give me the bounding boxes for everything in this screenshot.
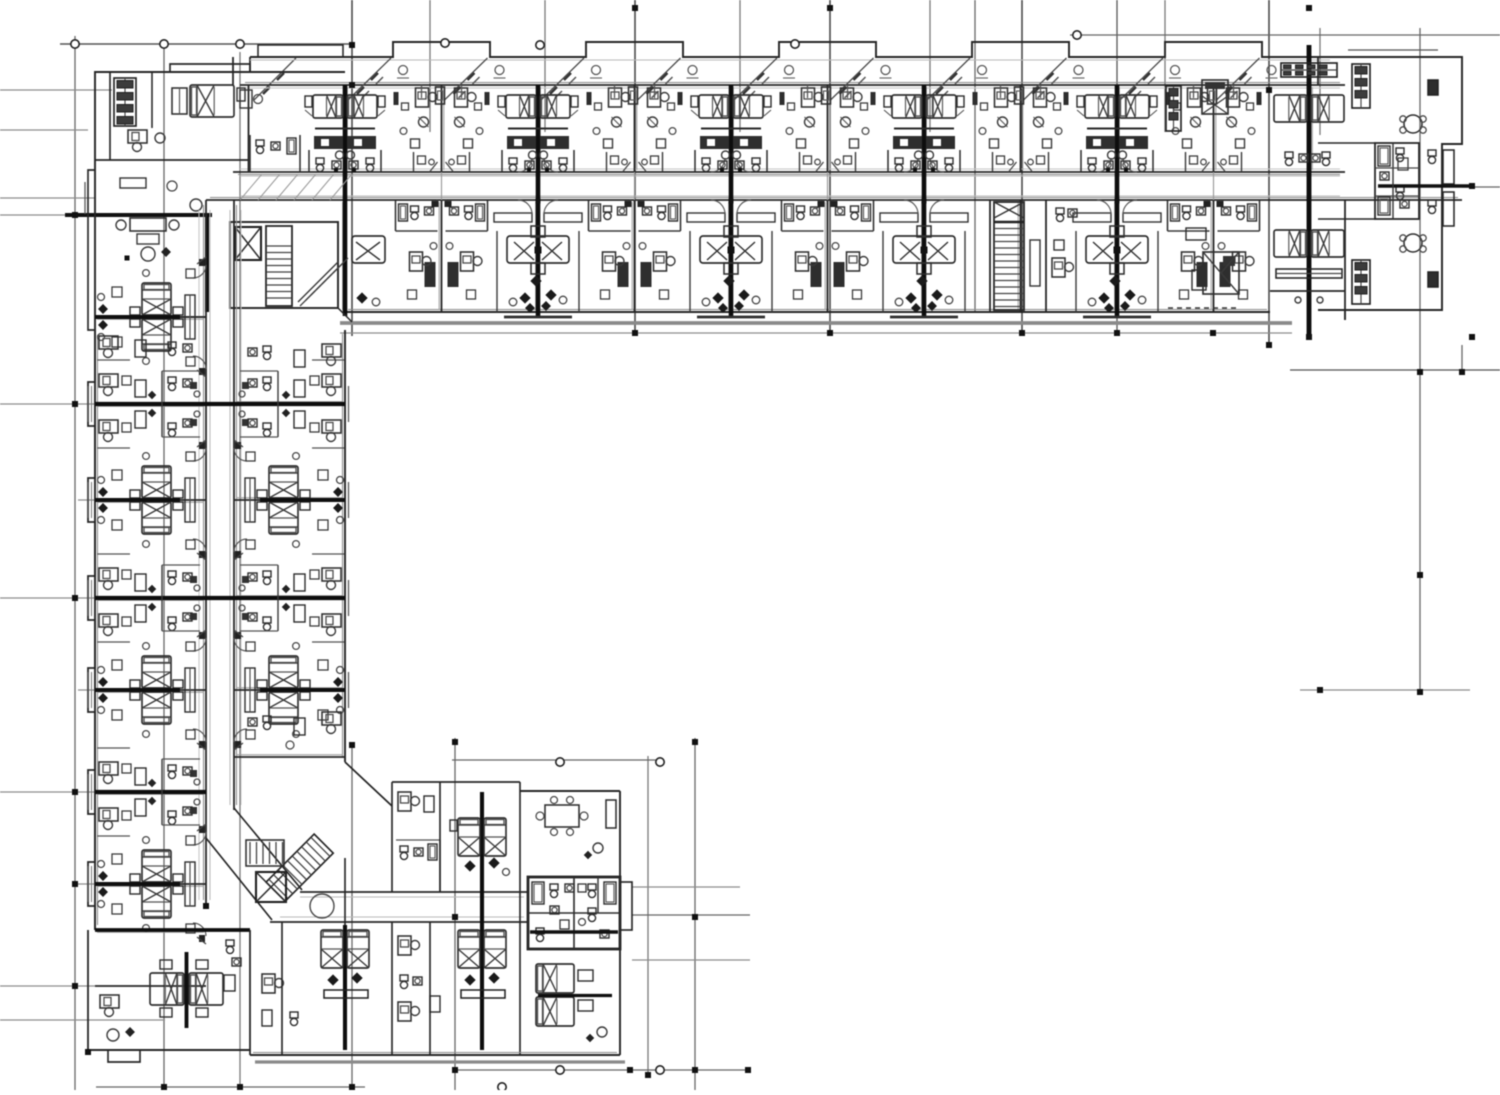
right column tv cabinet y=500 <box>245 478 255 522</box>
right end bottom wall local y=291 <box>1270 290 1345 292</box>
top row bed pair at x=924 <box>892 95 922 118</box>
bottom row desks at x=828 <box>796 252 809 271</box>
bottom row wide bed at x=538 <box>507 236 569 263</box>
top row wardrobe band at x=924 <box>893 136 922 149</box>
bottom row bath cluster at x=1214 <box>1183 206 1191 212</box>
left wing corridor guide greys <box>209 210 211 900</box>
top row wall blobs at x=634 <box>587 92 592 105</box>
left column bath cluster y=404 <box>168 377 176 383</box>
bottom row partition wall x=538 <box>537 200 539 312</box>
grid horizontal annex line y=887 <box>632 886 740 888</box>
top wing bottom row base line y=333 with dots <box>340 332 1292 334</box>
corridor turn diagonal A <box>234 808 302 890</box>
top row door ticks at x=634 <box>623 162 631 172</box>
top row desk cluster at x=828 <box>802 88 815 107</box>
annex stair side steps <box>246 840 284 866</box>
bottom row partition wall x=1214 <box>1213 200 1215 312</box>
bottom-left room bottom wall <box>88 1049 250 1051</box>
left wing outer west wall with bays <box>88 330 95 930</box>
right column desk cluster y=598 <box>322 568 341 581</box>
grid vertical short line x=545 <box>544 0 546 132</box>
grid horizontal line right y=370 <box>1290 369 1500 371</box>
bottom-left big room bed pair <box>150 973 184 1005</box>
bottom-left heavy bar x=186 <box>185 952 189 1028</box>
right column partial desk cluster y=730 <box>322 712 341 725</box>
annex suite bath box <box>528 877 620 949</box>
corner stair <box>266 226 292 306</box>
annex top desk x=415 <box>398 792 411 811</box>
special room bottom tables <box>1186 228 1206 240</box>
annex bottom bed pair at x=345 <box>321 930 343 968</box>
grid vertical line B x=164 <box>163 40 165 1090</box>
left column door ticks y=317 <box>197 257 206 264</box>
entrance hall desk cluster <box>130 218 166 231</box>
left column partition y=500 <box>95 499 206 501</box>
annex partitions bottom rooms <box>391 922 393 1055</box>
top row dresser line at x=731 <box>701 127 761 129</box>
annex bed wall x=482 heavy <box>480 792 484 1050</box>
annex corridor top wall y=892 <box>300 891 528 893</box>
corridor turn diagonal B <box>206 838 272 920</box>
grid horizontal annex line y=760 <box>452 759 658 761</box>
top wing west end jog <box>249 57 251 72</box>
grid horizontal annex line y=1070 <box>452 1069 750 1071</box>
grid horizontal line y=792 left margin <box>0 791 95 793</box>
left column partition y=317 <box>95 316 206 318</box>
right column partition y=500 <box>234 499 345 501</box>
top wing balcony floor grey y=88 <box>245 87 1340 89</box>
bottom row diamond chairs at x=538 <box>519 292 530 303</box>
top row door ticks at x=442 <box>430 162 438 172</box>
annex bottom grey slab line <box>255 1060 625 1063</box>
grid horizontal line y=986 left margin <box>0 985 95 987</box>
top wing bottom outer wall y=312 double <box>345 311 1270 313</box>
left column desk cluster y=598 <box>99 568 118 581</box>
bottom row desks at x=1214 <box>1182 252 1195 271</box>
left column tv cabinet y=500 <box>185 478 195 522</box>
grid vertical short line x=1165 <box>1164 0 1166 132</box>
bottom row wardrobe blobs at x=828 <box>811 262 822 287</box>
bottom row partition wall x=345 <box>344 200 346 312</box>
right block mid partitions <box>1318 142 1375 144</box>
top row wardrobe band at x=1117 <box>1086 136 1115 149</box>
corner stair diagonal flight <box>298 262 338 302</box>
grid horizontal stub y=690 <box>78 689 95 691</box>
left wing east outer wall x=345 double <box>344 330 346 762</box>
top row bath stubs at x=1214 <box>1185 152 1187 172</box>
left wing corridor door blobs <box>199 259 205 266</box>
left wing door arcs <box>193 265 206 278</box>
left wing bottom partition y=930 heavy <box>95 928 250 932</box>
grid horizontal axis line y=44 over corner <box>60 43 352 45</box>
left column partition y=598 <box>95 597 206 599</box>
right column bedside squares y=500 <box>318 470 328 480</box>
top row clutter at x=828 <box>788 103 795 110</box>
door swing arcs top wing top row <box>518 158 532 172</box>
bottom row bath cluster at x=828 <box>797 206 805 212</box>
top row desk cluster at x=1020 <box>995 88 1008 107</box>
top row circles at x=345 <box>336 151 344 159</box>
top row wardrobe band at x=345 <box>314 136 343 149</box>
bottom-left nightstands <box>160 960 172 969</box>
top row wall blobs at x=1020 <box>973 92 978 105</box>
left column door ticks y=690 <box>197 630 206 637</box>
corner suite top bay bump <box>170 64 250 72</box>
left wing bath door squares <box>190 382 197 389</box>
annex bottom bed wall x=345 heavy <box>343 925 347 1050</box>
bottom row bed center column at x=1117 <box>1110 226 1124 237</box>
top row clutter at x=1020 <box>981 103 988 110</box>
door swing arcs top wing bottom row <box>518 200 532 214</box>
right end dresser bottom <box>1276 269 1342 278</box>
top row partition wall x=1117 <box>1116 85 1118 172</box>
grid horizontal line y=598 left margin <box>0 597 95 599</box>
top row bath stubs at x=828 <box>799 152 801 172</box>
annex suite bed pair lower <box>536 964 574 993</box>
grid vertical line C x=240 <box>239 52 241 1090</box>
left wing heavy bar y=986 stub <box>95 985 206 987</box>
grid horizontal line y=198 left <box>0 197 95 199</box>
right column window diamonds y=690 <box>333 677 343 687</box>
bottom row wide bed at x=1117 <box>1086 236 1148 263</box>
left column window diamonds y=500 <box>98 487 108 497</box>
left column tv cabinet y=317 <box>185 295 195 339</box>
right block corridor stub walls <box>1344 200 1346 310</box>
bath next to stair <box>1056 208 1064 214</box>
grid horizontal heavy line y=215 entrance axis <box>0 214 65 216</box>
top row wall blobs at x=442 <box>394 92 399 105</box>
bottom row wide bed at x=731 <box>700 236 762 263</box>
left column bed-wall heavy bar y=884 <box>95 882 180 886</box>
top row bed pair at x=731 <box>699 95 729 118</box>
grid vertical line x=1320 <box>1319 28 1321 135</box>
right column door ticks y=500 <box>234 440 243 447</box>
annex suite bath fixtures <box>532 882 544 904</box>
grid horizontal line right y=690 <box>1300 689 1470 691</box>
stairwell side walls <box>989 200 991 312</box>
grid vertical line x=1269 <box>1268 0 1270 345</box>
annex suite chair lower <box>597 1027 607 1037</box>
top row wardrobe band at x=731 <box>700 136 729 149</box>
right column tv cabinet y=690 <box>245 668 255 712</box>
bottom row partition wall x=1310 <box>1309 200 1311 312</box>
bottom row partition wall x=731 <box>730 200 732 312</box>
top row desk cluster at x=442 <box>416 88 429 107</box>
top row wall blobs at x=828 <box>780 92 785 105</box>
stair landing bars <box>994 221 1024 224</box>
left column door ticks y=500 <box>197 440 206 447</box>
left column top room below corner <box>99 336 118 349</box>
left wing west wall inner grey <box>97 335 99 925</box>
stairwell top wing x=994 <box>994 202 1024 310</box>
annex suite sofa right top <box>606 800 616 828</box>
corner suite desk <box>128 130 147 143</box>
grid vertical annex line x=455 <box>454 738 456 1092</box>
grid horizontal annex line y=915 <box>632 914 750 916</box>
right column bed-wall heavy bar y=690 <box>260 688 345 692</box>
top row clutter at x=1214 <box>1174 103 1181 110</box>
bottom row partition wall x=1117 <box>1116 200 1118 312</box>
entrance pot plant circle <box>190 199 202 211</box>
top row bath fixtures at x=924 <box>895 158 903 164</box>
right end top bath bits <box>1285 152 1293 158</box>
annex suite left wall x=520 <box>519 782 521 1055</box>
bottom row door ticks at x=828 <box>817 200 824 209</box>
grid horizontal annex line y=960 <box>632 959 750 961</box>
right block outer walls <box>1318 57 1462 320</box>
top row partition wall x=1214 <box>1213 85 1215 172</box>
left wing corridor east wall x=234 double <box>233 200 235 810</box>
corridor junction dots <box>536 199 541 204</box>
left column tv cabinet y=884 <box>185 862 195 906</box>
right block bottom cabinets <box>1352 260 1370 304</box>
top row circles at x=924 <box>915 151 923 159</box>
left column partition y=404 <box>95 403 206 405</box>
annex suite dining table <box>545 805 579 827</box>
bottom row bed center column at x=924 <box>917 226 931 237</box>
grid vertical short line x=930 <box>929 0 931 132</box>
left column bedside squares y=500 <box>112 470 122 480</box>
left column bed pair at y=884 <box>142 850 171 882</box>
corner suite outer walls <box>95 72 345 170</box>
grid vertical line x=975 stair axis <box>974 0 976 312</box>
bottom row diamond chairs at x=731 <box>712 292 723 303</box>
right block toilets right <box>1428 150 1436 156</box>
top row circles at x=1117 <box>1108 151 1116 159</box>
corridor threshold ticks <box>441 172 443 200</box>
right block closet bumps right edge <box>1443 150 1454 184</box>
left column bed-wall heavy bar y=317 <box>95 315 180 319</box>
left column window diamonds y=884 <box>98 871 108 881</box>
annex suite right wall x=620 <box>619 791 621 1055</box>
top row clutter at x=442 <box>402 103 409 110</box>
right column bed-wall heavy bar y=500 <box>260 498 345 502</box>
grid vertical long line x=1022 <box>1021 0 1023 336</box>
left column tv cabinet y=690 <box>185 668 195 712</box>
right column top room y=330-404 contents <box>322 344 341 357</box>
top row partition wall x=1020 <box>1020 85 1022 172</box>
annex top bath cluster x=415 <box>400 846 408 852</box>
bottom row bath cluster at x=634 <box>604 206 612 212</box>
top row dresser line at x=1117 <box>1087 127 1147 129</box>
bottom-left bay bump <box>108 1050 140 1062</box>
bottom row shelves at x=1117 <box>1073 213 1111 222</box>
grid vertical line x=1420 right side <box>1419 28 1421 694</box>
right column door ticks y=690 <box>234 630 243 637</box>
grid vertical line D x=352 top <box>351 0 353 336</box>
annex suite bath extra fixtures <box>578 884 586 892</box>
heavy structural bar x=1309 <box>1307 45 1312 337</box>
top row partition wall x=538 <box>537 85 539 172</box>
annex suite chair marks top <box>593 843 603 853</box>
bottom row partition wall x=924 <box>923 200 925 312</box>
annex corridor guide greys <box>300 896 524 898</box>
top row door ticks at x=1020 <box>1009 162 1017 172</box>
annex suite bath heavy bar <box>530 930 618 934</box>
left column window diamonds y=317 <box>98 304 108 314</box>
left column bath cluster y=792 <box>168 765 176 771</box>
bottom row shelves at x=731 <box>687 213 725 222</box>
bottom-left clutter near corridor <box>226 940 234 946</box>
corner suite dresser <box>114 78 136 126</box>
top row bath fixtures at x=1117 <box>1088 158 1096 164</box>
right column partition y=690 <box>234 689 345 691</box>
annex stair diagonal <box>266 834 333 901</box>
grid vertical line D x=352 bottom <box>351 742 353 1090</box>
right end wardrobe top <box>1281 63 1337 77</box>
top wing corridor top wall y=172 double <box>233 171 1345 173</box>
elevator core box corner <box>230 222 338 308</box>
left column bed pair at y=690 <box>142 656 171 688</box>
bottom row shelves at x=924 <box>880 213 918 222</box>
annex bottom bed pair at x=482 <box>458 930 480 968</box>
left column desk cluster y=792 <box>99 762 118 775</box>
right column bath cluster y=404 <box>263 377 271 383</box>
annex top rooms outer wall y=782 <box>392 781 520 783</box>
top row bath stubs at x=1020 <box>992 152 994 172</box>
top row circles at x=538 <box>529 151 537 159</box>
left column bed-wall heavy bar y=500 <box>95 498 180 502</box>
bottom row door ticks at x=634 <box>624 200 631 209</box>
left wing heavy bars at desk walls <box>95 402 345 406</box>
right column desk cluster y=404 <box>322 374 341 387</box>
top row partition wall x=634 <box>634 85 636 172</box>
special room bottom row K-bed <box>1203 252 1239 294</box>
top wing corridor bottom wall y=200 double <box>206 199 1462 201</box>
annex bottom desk clusters <box>398 936 411 955</box>
top row circles at x=731 <box>722 151 730 159</box>
annex elevator <box>256 872 286 902</box>
top row extra partition x=248 <box>248 85 250 172</box>
left column bedside squares y=690 <box>112 660 122 670</box>
annex top bed pair at x=482 <box>458 818 480 856</box>
top row wardrobe band at x=538 <box>507 136 536 149</box>
bottom row diamond chairs at x=924 <box>905 292 916 303</box>
entrance hall west wall <box>88 170 95 330</box>
right block sofa top <box>1428 80 1438 95</box>
special room 1165-1262 top row: cabinet column <box>1166 86 1181 131</box>
bottom row door ticks at x=442 <box>431 200 438 209</box>
special room bottom dashed window wall <box>1168 307 1240 309</box>
left column window diamonds y=690 <box>98 677 108 687</box>
connector wall x=250 <box>249 930 251 1055</box>
bottom row shelves at x=538 <box>494 213 532 222</box>
bottom row wardrobe blobs at x=1214 <box>1197 262 1208 287</box>
left wing interior grey verticals <box>198 210 200 900</box>
corner hall clutter <box>120 178 146 188</box>
right block round table upper <box>1404 115 1422 133</box>
left column bed pair at y=500 <box>142 466 171 498</box>
bottom row window sill marks below wall <box>504 316 572 319</box>
special room vertical bed top row <box>1202 80 1228 114</box>
top row partition wall x=828 <box>827 85 829 172</box>
corner suite bath cluster <box>256 140 264 146</box>
right block top cabinets <box>1352 64 1370 108</box>
right end bed pair bottom row <box>1274 230 1307 257</box>
right block core fixtures <box>1378 146 1390 166</box>
donut circle markers <box>71 40 79 48</box>
corner core diagonal wall <box>338 308 352 322</box>
top row partition wall x=731 <box>730 85 732 172</box>
top row bed pair at x=538 <box>506 95 536 118</box>
bottom row single bed right of core x=352 <box>352 236 385 263</box>
annex suite top wall y=791 <box>520 790 620 792</box>
entrance hall south partition y=310 <box>95 316 206 318</box>
bottom row desks at x=442 <box>410 252 423 271</box>
bottom row wide bed at x=924 <box>893 236 955 263</box>
grid horizontal line y=1020 left <box>0 1019 165 1021</box>
corner suite bed <box>190 85 234 117</box>
annex west wall x=345 upper segment <box>344 858 346 925</box>
top row clutter at x=634 <box>595 103 602 110</box>
top row wall blobs at x=1214 <box>1166 92 1171 105</box>
bottom row alcove stub walls <box>496 231 498 312</box>
bottom row bed center column at x=731 <box>724 226 738 237</box>
bottom-left room desk <box>100 995 119 1008</box>
annex bottom dressers <box>324 990 368 998</box>
grid vertical short line x=740 <box>739 0 741 132</box>
top row dresser line at x=924 <box>894 127 954 129</box>
bottom row partition wall x=1020 <box>1020 200 1022 312</box>
top row bed pair at x=345 <box>313 95 343 118</box>
grid horizontal line right y=187 <box>1462 186 1500 188</box>
right column partition y=757 <box>234 756 345 758</box>
grid horizontal line y=90 left margin <box>0 89 112 91</box>
top row bath fixtures at x=345 <box>316 158 324 164</box>
elevator corner <box>235 227 261 260</box>
annex corridor bottom wall y=922 <box>270 921 528 923</box>
left wing east window marks <box>348 386 350 422</box>
right block bottom wall <box>1318 309 1442 311</box>
corner suite inner partition y=160 <box>95 159 248 161</box>
left column partition y=792 <box>95 791 206 793</box>
bottom row wardrobe blobs at x=442 <box>425 262 436 287</box>
grid horizontal stub y=884 <box>78 883 95 885</box>
left column bed-wall heavy bar y=690 <box>95 688 180 692</box>
left column partition y=930 <box>95 929 206 931</box>
right column bed pair at y=690 <box>269 656 298 688</box>
top wing outer balcony wall with bays <box>250 42 1462 57</box>
top row door ticks at x=1214 <box>1202 162 1210 172</box>
left column partition y=884 <box>95 883 206 885</box>
entrance corridor heavy bar x=207 <box>205 215 209 312</box>
left column bed pair at y=317 <box>142 283 171 315</box>
grid horizontal line top right y=35 <box>1070 34 1500 36</box>
bottom row partition wall x=634 <box>634 200 636 312</box>
top row dresser line at x=345 <box>315 127 375 129</box>
left column bath cluster y=598 <box>168 571 176 577</box>
annex outer diagonal from left wing <box>345 762 392 806</box>
left wing window double lines west <box>87 386 89 422</box>
right column bath cluster y=598 <box>263 571 271 577</box>
top row bath fixtures at x=731 <box>702 158 710 164</box>
grid vertical long line x=830 <box>829 0 831 336</box>
bottom row bath cluster at x=442 <box>411 206 419 212</box>
top wing room grey y=169 <box>240 168 1340 170</box>
bottom row diamond chairs at x=1117 <box>1098 292 1109 303</box>
heavy structural bars at bed walls <box>343 85 348 316</box>
top row bath stubs at x=634 <box>606 152 608 172</box>
left wing corridor west wall x=206 double <box>205 200 207 905</box>
top row partition wall x=345 <box>344 85 346 172</box>
black square dots at intersections <box>72 212 78 218</box>
first room balcony diagonal <box>254 58 296 100</box>
annex partition top rooms x=440 <box>439 782 441 892</box>
top row partition wall x=924 <box>923 85 925 172</box>
grid horizontal line y=130 left margin <box>0 129 88 131</box>
right column bed pair at y=500 <box>269 466 298 498</box>
right column partition y=404 <box>234 403 345 405</box>
